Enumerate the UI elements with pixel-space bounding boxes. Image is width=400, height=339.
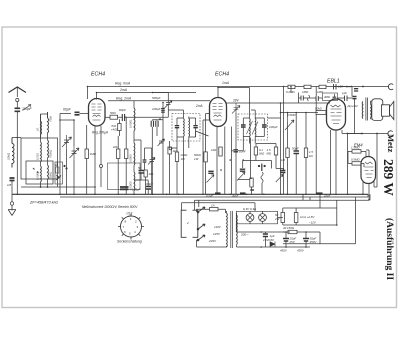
capacitor right blob	[262, 125, 267, 127]
resistor 0.2M on AVC rail	[288, 85, 295, 88]
wire phono leads	[182, 200, 370, 211]
tube top cap	[333, 97, 337, 99]
node resistor bottom	[250, 189, 254, 191]
ground lead	[11, 194, 13, 201]
svg-text:1µF: 1µF	[342, 91, 347, 95]
inductor L1b	[40, 142, 43, 162]
resistor small	[56, 167, 59, 173]
capacitor 1uF	[345, 96, 348, 102]
svg-text:ECH4: ECH4	[91, 72, 105, 78]
speaker body	[382, 105, 390, 116]
wire	[118, 119, 119, 194]
wire secondary	[371, 101, 372, 119]
wire left riser	[60, 114, 71, 195]
wire to EBL1 grid	[325, 112, 328, 114]
jack contact	[261, 164, 263, 172]
wire	[118, 107, 169, 117]
inductor osc top	[133, 108, 136, 131]
svg-text:Metz: Metz	[386, 134, 396, 153]
connector C mark	[388, 84, 393, 90]
trimmer arrow	[23, 105, 32, 111]
resistor 1.5M	[274, 147, 277, 155]
wire	[16, 102, 18, 108]
svg-text:750kΩ: 750kΩ	[49, 171, 53, 180]
capacitor 0.1uF	[301, 96, 303, 101]
svg-text:Reg. 0mA: Reg. 0mA	[115, 82, 131, 86]
inductor IF1 primary	[183, 119, 186, 137]
wire heater line	[369, 194, 371, 200]
IF transformer 2 dashed box	[238, 114, 268, 140]
resistor 1M vertical	[85, 149, 88, 159]
electrolytic 25uF	[283, 239, 289, 242]
resistor vertical	[286, 148, 289, 158]
capacitor blob osc padder	[139, 171, 145, 174]
capacitor series on rail	[334, 84, 337, 90]
wire IF1 down legs	[177, 131, 209, 194]
svg-text:2mA: 2mA	[195, 104, 203, 108]
wire antenna lead	[16, 88, 18, 98]
wire	[285, 232, 287, 247]
svg-text:1kΩ: 1kΩ	[211, 148, 217, 152]
wire	[12, 137, 21, 139]
capacitor right blob	[193, 126, 197, 128]
AVC rail Reg.0mA	[88, 86, 390, 88]
svg-text:1.5MΩ: 1.5MΩ	[351, 146, 360, 150]
svg-text:10kΩ: 10kΩ	[7, 152, 11, 160]
inductor osc bottom	[133, 172, 136, 190]
node antenna terminal	[16, 98, 19, 101]
wire grid leak drop	[315, 87, 317, 195]
wire tube2 bottom pins	[217, 127, 225, 195]
svg-text:1A: 1A	[211, 204, 215, 208]
capacitor trimmer b	[158, 139, 165, 146]
svg-text:50pF: 50pF	[292, 147, 299, 151]
resistor 5k vertical	[125, 149, 128, 159]
svg-text:1/8: 1/8	[7, 183, 12, 187]
phono jack left prong	[181, 210, 186, 237]
wire AF riser	[280, 103, 282, 194]
svg-text:60pF: 60pF	[63, 108, 72, 112]
wire	[295, 113, 297, 195]
wire	[124, 117, 126, 194]
svg-text:Reg. 2mA: Reg. 2mA	[116, 96, 132, 100]
choke resistor horizontal	[288, 230, 297, 233]
svg-text:1W: 1W	[181, 157, 186, 161]
wire	[134, 140, 141, 180]
wire plate to transformer	[342, 134, 362, 195]
svg-text:435V: 435V	[297, 249, 305, 253]
ground terminal circle	[10, 202, 13, 205]
node dots	[64, 165, 65, 166]
svg-text:1MΩ: 1MΩ	[317, 90, 324, 94]
wire top rail drop	[283, 87, 285, 171]
tube V1 ECH4 envelope	[89, 99, 106, 127]
wire osc column	[133, 101, 135, 195]
svg-text:0.5MΩ: 0.5MΩ	[351, 158, 360, 162]
svg-text:Sockelschaltung: Sockelschaltung	[117, 240, 142, 244]
svg-text:+100µF: +100µF	[130, 188, 140, 192]
wire EBL1 pins	[326, 94, 342, 194]
capacitor blob cathode	[208, 171, 213, 173]
capacitor 100pF	[316, 96, 318, 101]
wire	[148, 148, 152, 194]
svg-text:Meßinstrument 1000Ω/V, Bereich: Meßinstrument 1000Ω/V, Bereich 800V	[82, 205, 138, 209]
svg-text:125V: 125V	[213, 232, 221, 236]
variable capacitor trimmer	[232, 104, 240, 114]
svg-text:350V: 350V	[310, 240, 318, 244]
svg-text:1MΩ: 1MΩ	[90, 152, 97, 156]
wire	[287, 113, 289, 149]
svg-text:0.0001: 0.0001	[129, 119, 133, 128]
svg-text:25V: 25V	[289, 240, 296, 244]
svg-text:ZF=458/473 kHz: ZF=458/473 kHz	[29, 201, 58, 205]
svg-text:ECH4: ECH4	[215, 72, 229, 78]
wire	[60, 120, 74, 194]
node mains dots	[197, 211, 199, 213]
wire right risers	[283, 243, 356, 245]
chassis bus lower	[60, 194, 368, 197]
inductor L1a	[40, 121, 43, 135]
phono jack right prong	[193, 210, 198, 237]
svg-text:100: 100	[149, 172, 154, 176]
wire box top feeds	[41, 112, 48, 138]
svg-text:1MΩ: 1MΩ	[302, 90, 309, 94]
core arrows	[247, 121, 259, 135]
variable capacitor tuning 2	[70, 146, 80, 160]
connector C mark 2	[388, 131, 393, 137]
fuse 1A	[210, 208, 219, 211]
variable capacitor tuning 1	[62, 135, 72, 149]
wire antenna down	[16, 111, 18, 194]
svg-text:+40Ω: +40Ω	[111, 128, 119, 132]
wire squiggle S	[308, 95, 310, 101]
wire EM4 pins	[363, 134, 377, 201]
capacitor 100pF antenna series	[15, 108, 21, 111]
wire detector rail	[255, 144, 276, 148]
wire top pin drops	[88, 87, 97, 100]
wire top rail to tube2	[218, 88, 250, 99]
resistor 7k vertical	[118, 124, 121, 131]
output transformer primary winding	[361, 102, 364, 119]
tube V4 internals	[365, 162, 374, 178]
capacitor left blob	[175, 126, 179, 128]
wire	[305, 232, 307, 247]
capacitor blob small	[353, 97, 357, 99]
wire plate right	[105, 116, 111, 118]
potentiometer arrow	[276, 175, 283, 183]
wire	[283, 231, 320, 233]
resistor 50 2W vertical	[281, 213, 285, 223]
wire	[261, 183, 263, 194]
wire IF2 connects	[243, 88, 264, 138]
IF transformer 1 dashed box	[172, 114, 200, 142]
capacitor dual 50uF	[151, 121, 158, 127]
lamp 1	[246, 214, 254, 222]
svg-text:289 W: 289 W	[381, 159, 396, 196]
antenna	[9, 87, 27, 93]
svg-text:750k: 750k	[49, 115, 53, 122]
capacitor blob 1uF	[263, 234, 268, 237]
capacitor 50pF	[294, 151, 300, 154]
switch contact dots	[33, 168, 39, 173]
tube V1 internals	[92, 104, 102, 120]
wire AVC drop x163	[162, 103, 164, 195]
svg-text:1W: 1W	[194, 157, 199, 161]
svg-text:200∼: 200∼	[240, 233, 249, 237]
wire	[172, 147, 177, 149]
svg-text:110V: 110V	[214, 225, 222, 229]
svg-text:50Ω: 50Ω	[110, 111, 116, 115]
socket pins	[118, 214, 144, 240]
wire	[276, 168, 284, 194]
wire to tube grid	[80, 113, 90, 115]
wire	[66, 149, 68, 194]
wire	[238, 178, 252, 194]
wire	[235, 103, 237, 194]
capacitor blob 30uF on bus	[240, 192, 246, 194]
svg-text:(E)-L94: (E)-L94	[348, 104, 358, 108]
svg-text:25µF: 25µF	[323, 194, 331, 198]
capacitor trimmer c	[148, 158, 155, 165]
svg-text:∅13: ∅13	[126, 212, 133, 216]
wire	[153, 93, 169, 108]
mains switch contacts	[198, 207, 205, 240]
svg-text:0.5MΩ: 0.5MΩ	[287, 113, 296, 117]
svg-text:40 150Ω: 40 150Ω	[283, 226, 295, 230]
node jack dots	[258, 165, 260, 167]
transformer T1 secondary	[236, 215, 239, 245]
svg-text:750kΩ: 750kΩ	[49, 149, 53, 158]
wire transformer ends	[226, 212, 237, 248]
wire coil column 2	[47, 112, 49, 187]
feedback box	[323, 93, 338, 101]
inductor IF2 secondary	[254, 119, 257, 137]
svg-text:0.0005: 0.0005	[129, 154, 133, 163]
oscillator section box	[108, 163, 141, 190]
wire	[134, 180, 148, 194]
resistor 1k vertical right	[168, 147, 171, 154]
rail Reg.2mA	[108, 100, 210, 102]
resistor 100 vertical	[144, 170, 147, 177]
svg-text:MΩ: MΩ	[267, 152, 272, 156]
inductor L2a	[48, 118, 49, 133]
svg-text:4MΩ: 4MΩ	[324, 95, 331, 99]
resistor 0.5M horizontal	[352, 162, 361, 165]
potentiometer tone arrow	[285, 117, 294, 130]
svg-text:0.001: 0.001	[36, 153, 40, 160]
svg-text:500pF: 500pF	[152, 96, 161, 100]
tube V4 EM4 envelope	[361, 157, 376, 184]
svg-text:6,3V 0,3A: 6,3V 0,3A	[243, 207, 256, 211]
wire	[231, 127, 243, 195]
svg-text:1M: 1M	[281, 158, 286, 162]
inductor osc mid	[133, 143, 136, 165]
socket circle	[121, 216, 142, 237]
transformer core	[366, 98, 368, 121]
electrolytic 50uF 350V	[303, 239, 309, 242]
resistor 50 horizontal	[110, 115, 118, 119]
wire rectifier	[283, 208, 337, 225]
wire lamps	[250, 211, 283, 224]
resistor 0.1 5k	[254, 147, 257, 155]
wire	[11, 181, 13, 195]
jack box	[243, 161, 272, 169]
trimmer arrow	[207, 175, 215, 183]
wire mains	[197, 200, 226, 247]
terminal circle	[169, 147, 172, 150]
svg-text:2mA: 2mA	[119, 88, 128, 92]
svg-text:−12V: −12V	[309, 221, 317, 225]
capacitor blob	[10, 178, 15, 181]
resistor 50k horizontal	[316, 111, 326, 115]
resistor vertical b	[294, 213, 298, 223]
svg-text:0.0005: 0.0005	[36, 171, 40, 180]
wire bracket C	[348, 133, 389, 135]
inductor L2b	[47, 140, 50, 158]
wire EM4 connects	[348, 151, 366, 167]
svg-text:60pF: 60pF	[119, 108, 126, 112]
svg-text:10: 10	[36, 127, 40, 131]
wire dual cap	[152, 120, 163, 195]
resistor 1M b on AVC rail	[319, 85, 326, 88]
resistor 50k vertical	[204, 152, 207, 162]
dial lamp box	[236, 211, 277, 224]
wire	[287, 158, 289, 195]
flexible lead squiggle	[261, 172, 263, 183]
capacitor blob 25uF on bus	[317, 192, 323, 194]
band switch box inner	[26, 161, 53, 184]
capacitor blob volume	[240, 169, 245, 171]
wire plate line to EBL1	[227, 102, 331, 104]
svg-text:220V: 220V	[208, 239, 217, 243]
capacitor electrolytic 100uF	[120, 187, 129, 189]
rail 2mA	[97, 92, 197, 94]
svg-text:20k: 20k	[112, 145, 118, 149]
wire	[334, 87, 355, 134]
resistor 1.5M horizontal	[352, 150, 361, 153]
svg-text:5kΩ: 5kΩ	[259, 152, 265, 156]
transformer core	[231, 211, 233, 248]
svg-text:1mA: 1mA	[222, 81, 230, 85]
diode 2xNC60	[270, 242, 275, 247]
capacitor blob 10nF	[234, 150, 239, 152]
svg-text:450V: 450V	[280, 249, 288, 253]
svg-text:28V: 28V	[232, 99, 240, 103]
wire top row connects	[291, 87, 323, 104]
svg-text:10nF: 10nF	[239, 150, 246, 154]
band switch box outer	[21, 138, 58, 179]
svg-text:1mA +2,8V: 1mA +2,8V	[300, 215, 315, 219]
capacitor blob 0.1uF	[280, 171, 285, 173]
wire	[236, 224, 290, 247]
capacitor 40pF	[122, 114, 124, 121]
wire IF1 connects	[168, 110, 195, 138]
tube V2 internals	[213, 104, 223, 121]
resistor vertical	[250, 178, 253, 187]
bus drops right	[303, 194, 356, 244]
potentiometer volume arrow	[237, 172, 245, 180]
capacitor blob on rail	[354, 89, 358, 91]
chassis bus main	[12, 193, 368, 195]
inductor IF2 primary	[249, 119, 252, 137]
capacitor 60pF series	[75, 112, 80, 115]
switch mech	[57, 175, 62, 180]
svg-text:100pF: 100pF	[269, 125, 278, 129]
wire tube1 bottom pins	[95, 126, 101, 194]
inductor IF1 secondary	[188, 119, 191, 137]
terminal circle	[100, 165, 103, 168]
tube V2 ECH4 envelope	[210, 98, 227, 127]
ground symbol arrow	[8, 205, 16, 215]
wire heater bottom	[237, 232, 321, 247]
speaker frame	[372, 99, 383, 121]
secondary winding	[370, 105, 373, 118]
wire	[145, 148, 149, 194]
transformer T1 primary	[226, 213, 229, 247]
svg-text:2×NC60: 2×NC60	[262, 238, 274, 242]
inductor L2c	[47, 165, 50, 179]
capacitor blob	[143, 160, 147, 162]
wire tube2 left pins	[203, 114, 210, 195]
resistor 1M on AVC rail	[304, 85, 311, 88]
capacitor 100pF blob	[161, 109, 165, 113]
resistor 20k vertical	[175, 152, 178, 162]
wire IF2 down legs	[250, 118, 281, 144]
svg-text:100pF: 100pF	[22, 107, 33, 111]
wire resistor legs	[251, 138, 276, 180]
capacitor blob 100pF	[146, 187, 152, 190]
svg-text:2: 2	[186, 221, 189, 225]
capacitor left blob	[241, 125, 246, 127]
wire	[86, 125, 88, 194]
capacitor blob 0.5uF on bus	[215, 192, 221, 194]
wire AF coupling line	[281, 112, 319, 114]
inductor L1c	[40, 166, 43, 182]
capacitor 500pF trimmer a	[165, 101, 173, 109]
wire bottom collector	[21, 162, 95, 187]
inductor antenna coil	[12, 138, 14, 168]
resistor 1k vertical	[219, 147, 222, 156]
svg-text:(Ausführung II: (Ausführung II	[384, 218, 395, 280]
resistor 20k vertical	[117, 149, 120, 159]
speaker cone	[390, 102, 394, 120]
resistor vertical 1.5k	[304, 148, 307, 158]
svg-text:Reg.200µA: Reg.200µA	[92, 131, 108, 135]
tube V3 EBL1 envelope	[327, 99, 346, 130]
wire coil column 1	[40, 114, 42, 187]
lamp 2	[259, 214, 267, 222]
svg-text:100pF: 100pF	[152, 107, 161, 111]
tube V3 internals	[331, 105, 342, 124]
wire	[305, 113, 307, 195]
wave switch box	[55, 162, 63, 184]
svg-text:2W: 2W	[274, 217, 280, 221]
wire	[176, 148, 178, 194]
wire	[169, 141, 171, 194]
svg-text:18: 18	[55, 163, 59, 167]
